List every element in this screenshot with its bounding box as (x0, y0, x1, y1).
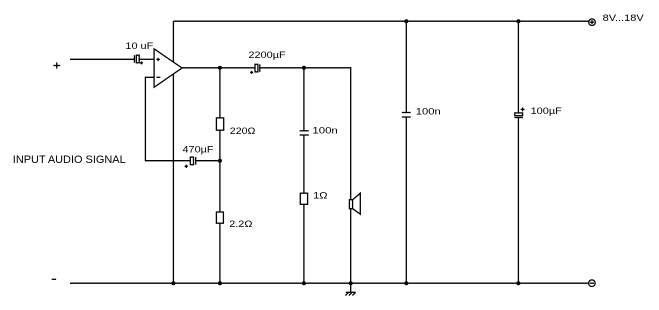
terminal positive supply (589, 19, 596, 26)
op-amp U1 plus input mark (156, 58, 159, 61)
capacitor C1 polarity plus (140, 61, 143, 64)
svg-text:470µF: 470µF (183, 144, 214, 155)
speaker LS1 cone (353, 193, 361, 214)
capacitor C2 2200uF right plate (259, 64, 261, 72)
wire output node to R1 (219, 68, 221, 118)
resistor R1 220ohm (216, 118, 223, 130)
svg-text:10 uF: 10 uF (125, 41, 153, 52)
wire C3 to node B (196, 160, 220, 162)
capacitor C2 polarity plus (250, 71, 253, 74)
wire C5 to bottom rail (405, 117, 407, 283)
capacitor C3 470uF left plate box (190, 157, 193, 165)
svg-text:100n: 100n (416, 106, 441, 117)
wire C6 to bottom rail (517, 117, 519, 283)
wire C2 to speaker corner (260, 68, 351, 283)
capacitor C6 100uF top plate box (515, 113, 523, 116)
capacitor C6 polarity plus (521, 107, 525, 111)
capacitor C4 100n top plate (300, 130, 309, 132)
wire R1 to R2 (219, 130, 221, 212)
wire node C to C4 (303, 68, 305, 131)
svg-text:100n: 100n (312, 126, 337, 137)
wire bottom rail (70, 282, 589, 284)
junction dot top rail C6 (516, 19, 520, 23)
capacitor C3 470uF right plate (195, 157, 197, 165)
junction dot bottom rail R3 (302, 281, 306, 285)
wire feedback minus input (145, 77, 190, 160)
wire C1 to op-amp (139, 58, 154, 60)
wire input signal top (70, 58, 134, 60)
junction dot bottom rail C5 (404, 281, 408, 285)
wire C5 branch (405, 21, 407, 112)
capacitor C4 100n bottom plate (300, 134, 309, 136)
wire R3 to bottom rail (303, 204, 305, 283)
node A junction dot (218, 66, 222, 70)
speaker LS1 box (349, 200, 352, 209)
junction dot bottom rail R2 (218, 281, 222, 285)
capacitor C2 2200uF left plate box (255, 64, 258, 72)
svg-text:2.2Ω: 2.2Ω (229, 219, 252, 230)
capacitor C3 polarity plus (185, 165, 188, 168)
node C junction dot (302, 66, 306, 70)
capacitor C1 10uF left plate (133, 55, 135, 63)
svg-text:8V...18V: 8V...18V (603, 13, 645, 24)
junction dot bottom rail op-amp (171, 281, 175, 285)
svg-text:INPUT AUDIO SIGNAL: INPUT AUDIO SIGNAL (13, 154, 126, 166)
svg-text:220Ω: 220Ω (230, 126, 256, 137)
junction dot bottom rail C6 (516, 281, 520, 285)
wire C4 to R3 (303, 135, 305, 193)
op-amp U1 minus input mark (156, 76, 160, 78)
wire C6 branch (517, 21, 519, 113)
wire R2 to bottom rail (219, 223, 221, 283)
capacitor C1 10uF right plate box (136, 55, 139, 63)
node B junction dot (218, 159, 222, 163)
op-amp U1 (154, 49, 182, 87)
svg-text:1Ω: 1Ω (313, 191, 328, 202)
wire op-amp power from top rail (172, 21, 174, 283)
svg-text:2200µF: 2200µF (248, 50, 286, 61)
junction dot top rail C5 (404, 19, 408, 23)
wire op-amp output (182, 67, 255, 69)
ground stub (350, 283, 352, 292)
terminal negative supply (589, 280, 596, 287)
ground chassis symbol (345, 292, 355, 295)
capacitor C6 100uF bottom plate (514, 117, 523, 119)
svg-text:100µF: 100µF (531, 106, 563, 117)
resistor R2 2.2ohm (216, 212, 223, 223)
input plus mark (53, 62, 60, 68)
input minus mark (52, 278, 56, 280)
wire top rail (173, 20, 588, 22)
junction dot bottom rail speaker (349, 281, 353, 285)
resistor R3 1ohm (300, 193, 307, 204)
capacitor C5 100n top plate (402, 112, 411, 114)
capacitor C5 100n bottom plate (402, 116, 411, 118)
